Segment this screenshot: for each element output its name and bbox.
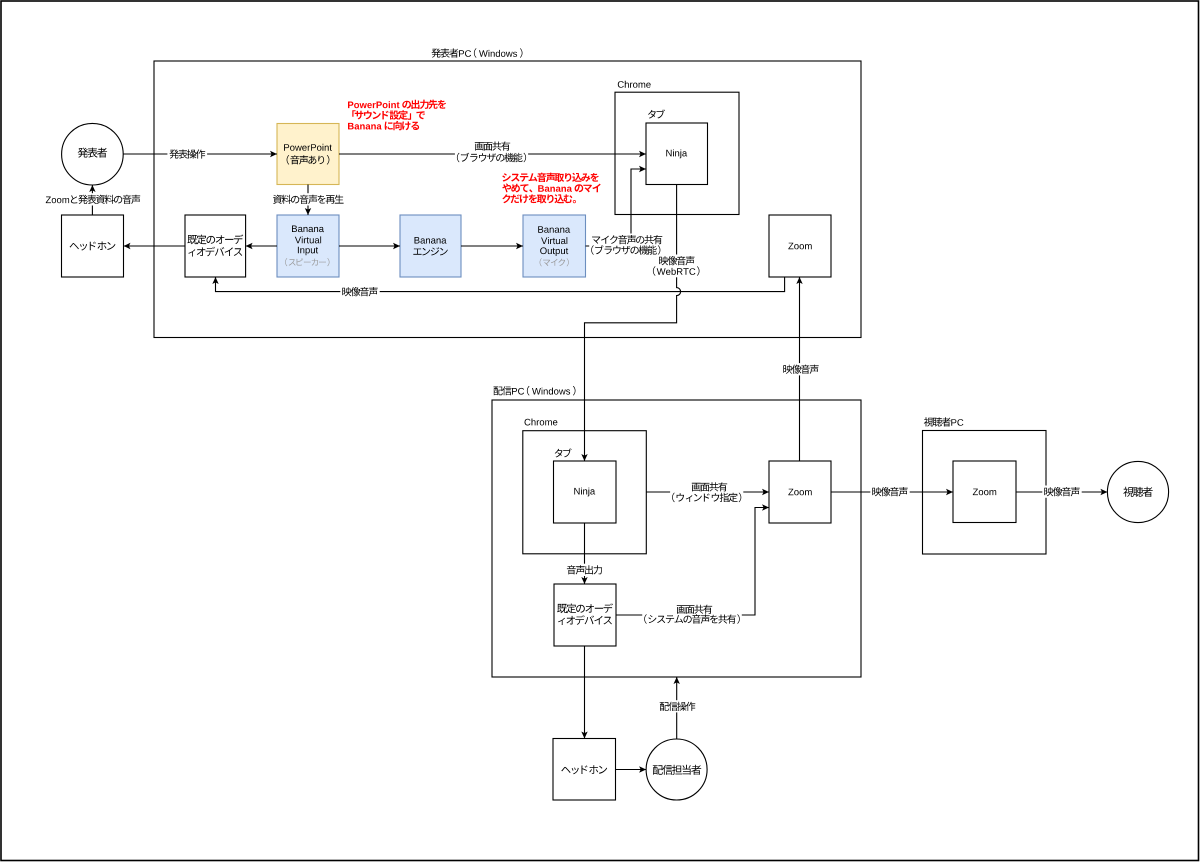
container 発表者PC (Windows) — [154, 61, 861, 338]
text 配信担当者 — [653, 765, 701, 775]
text 発表者 — [78, 148, 107, 158]
text 既定のオーディオデバイス (presenter) — [187, 235, 243, 257]
text 視聴者 — [1123, 487, 1152, 497]
label 発表者PC（Windows） — [432, 48, 523, 58]
container Chrome (streaming PC) — [523, 431, 647, 554]
box Banana engine — [400, 215, 461, 277]
box ヘッドホン (streaming) — [553, 739, 616, 801]
label マイク音声の共有（ブラウザの機能） — [589, 234, 664, 257]
box Ninja (streaming) — [554, 461, 617, 523]
text ヘッドホン (streaming) — [561, 765, 607, 774]
label 配信操作 — [658, 700, 698, 712]
label Zoomと発表資料の音声 — [44, 193, 143, 205]
container Chrome (presenter PC) — [615, 92, 739, 214]
wire Banana Virtual Output to Ninja (mic share) — [586, 166, 647, 246]
wire 既定のオーディオデバイス(streaming) to ヘッドホン(streaming) — [581, 646, 587, 739]
box Zoom (presenter) — [769, 215, 831, 277]
box Zoom (streaming) — [769, 461, 831, 523]
label 映像音声 (between PCs) — [781, 363, 820, 375]
wire ヘッドホン to 発表者 — [89, 185, 95, 215]
box ヘッドホン (presenter) — [62, 215, 124, 277]
wire Zoom(viewer) to 視聴者 — [1016, 489, 1107, 495]
text Zoom (streaming) — [788, 489, 811, 496]
box Banana Virtual Output — [523, 215, 586, 277]
text Zoom (viewer) — [973, 489, 996, 496]
text （マイク） gray — [540, 258, 569, 266]
label 映像音声（WebRTC） — [651, 255, 702, 278]
text ヘッドホン (presenter) — [70, 242, 116, 251]
wire Banana Virtual Input to Banana engine — [339, 243, 400, 249]
wire Zoom(streaming) to Zoom(viewer) — [831, 489, 953, 495]
label 画面共有（システムの音声を共有） — [642, 603, 742, 625]
text Ninja (presenter) — [666, 150, 687, 159]
circle 発表者 — [62, 123, 124, 185]
box Ninja (presenter) — [646, 123, 708, 185]
label Chrome (streaming) — [525, 419, 558, 426]
box 既定のオーディオデバイス (streaming) — [554, 584, 616, 646]
label 映像音声 (to viewer PC) — [870, 486, 909, 498]
label Chrome (presenter) — [618, 81, 651, 88]
container 配信PC (Windows) — [492, 400, 861, 677]
box Zoom (viewer) — [953, 461, 1016, 523]
wire PowerPoint to Banana Virtual Input — [305, 185, 311, 216]
wire Chrome(streaming) to Zoom(streaming) — [646, 489, 769, 495]
container 視聴者PC — [923, 431, 1047, 555]
label 視聴者PC — [924, 417, 964, 426]
text PowerPoint（音声あり） — [284, 144, 332, 165]
wire 既定のオーディオデバイス(streaming) to Zoom(streaming) — [616, 504, 769, 615]
label 配信PC（Windows） — [494, 386, 576, 396]
wire 発表者 to PowerPoint — [123, 151, 277, 157]
text Ninja (streaming) — [574, 488, 595, 497]
wire Banana Virtual Input to 既定のオーディオデバイス — [246, 243, 277, 249]
circle 配信担当者 — [646, 739, 707, 800]
note red system audio — [502, 173, 600, 204]
text Banana エンジン — [413, 237, 447, 256]
label 映像音声 (to headphones) — [340, 286, 379, 298]
box PowerPoint — [277, 124, 339, 185]
label タブ (presenter) — [648, 110, 665, 119]
label 画面共有（ブラウザの機能） upper — [455, 140, 528, 164]
wire 配信担当者 to 配信PC (配信操作) — [674, 677, 680, 739]
wire PowerPoint to Ninja (screen share) — [339, 151, 646, 157]
wire Ninja to streaming Ninja (WebRTC) with line hop — [581, 185, 680, 462]
text Banana Virtual Output — [538, 226, 570, 256]
label 音声出力 — [565, 564, 604, 576]
wire Ninja(streaming) to 既定のオーディオデバイス(streaming) — [581, 523, 587, 584]
wire Zoom(presenter) to 既定のオーディオデバイス (映像音声) — [212, 277, 784, 292]
circle 視聴者 — [1107, 461, 1168, 522]
wire 既定のオーディオデバイス to ヘッドホン — [124, 243, 186, 249]
label 画面共有（ウィンドウ指定） — [670, 481, 743, 504]
wire Banana engine to Banana Virtual Output — [461, 243, 523, 249]
text Banana Virtual Input — [292, 226, 324, 256]
label 資料の音声を再生 — [271, 193, 346, 205]
wire ヘッドホン(streaming) to 配信担当者 — [616, 766, 647, 772]
note red PowerPoint output — [348, 100, 446, 131]
box 既定のオーディオデバイス (presenter) — [185, 215, 246, 277]
box Banana Virtual Input — [277, 215, 339, 277]
text （スピーカー） gray — [285, 258, 329, 266]
wire Zoom(streaming) up to Zoom(presenter) — [796, 277, 802, 461]
label 映像音声 (to viewer) — [1042, 486, 1081, 498]
text Zoom (presenter) — [788, 243, 811, 250]
text 既定のオーディオデバイス (streaming) — [557, 603, 613, 625]
label 発表操作 — [167, 148, 207, 160]
label タブ (streaming) — [555, 448, 572, 457]
